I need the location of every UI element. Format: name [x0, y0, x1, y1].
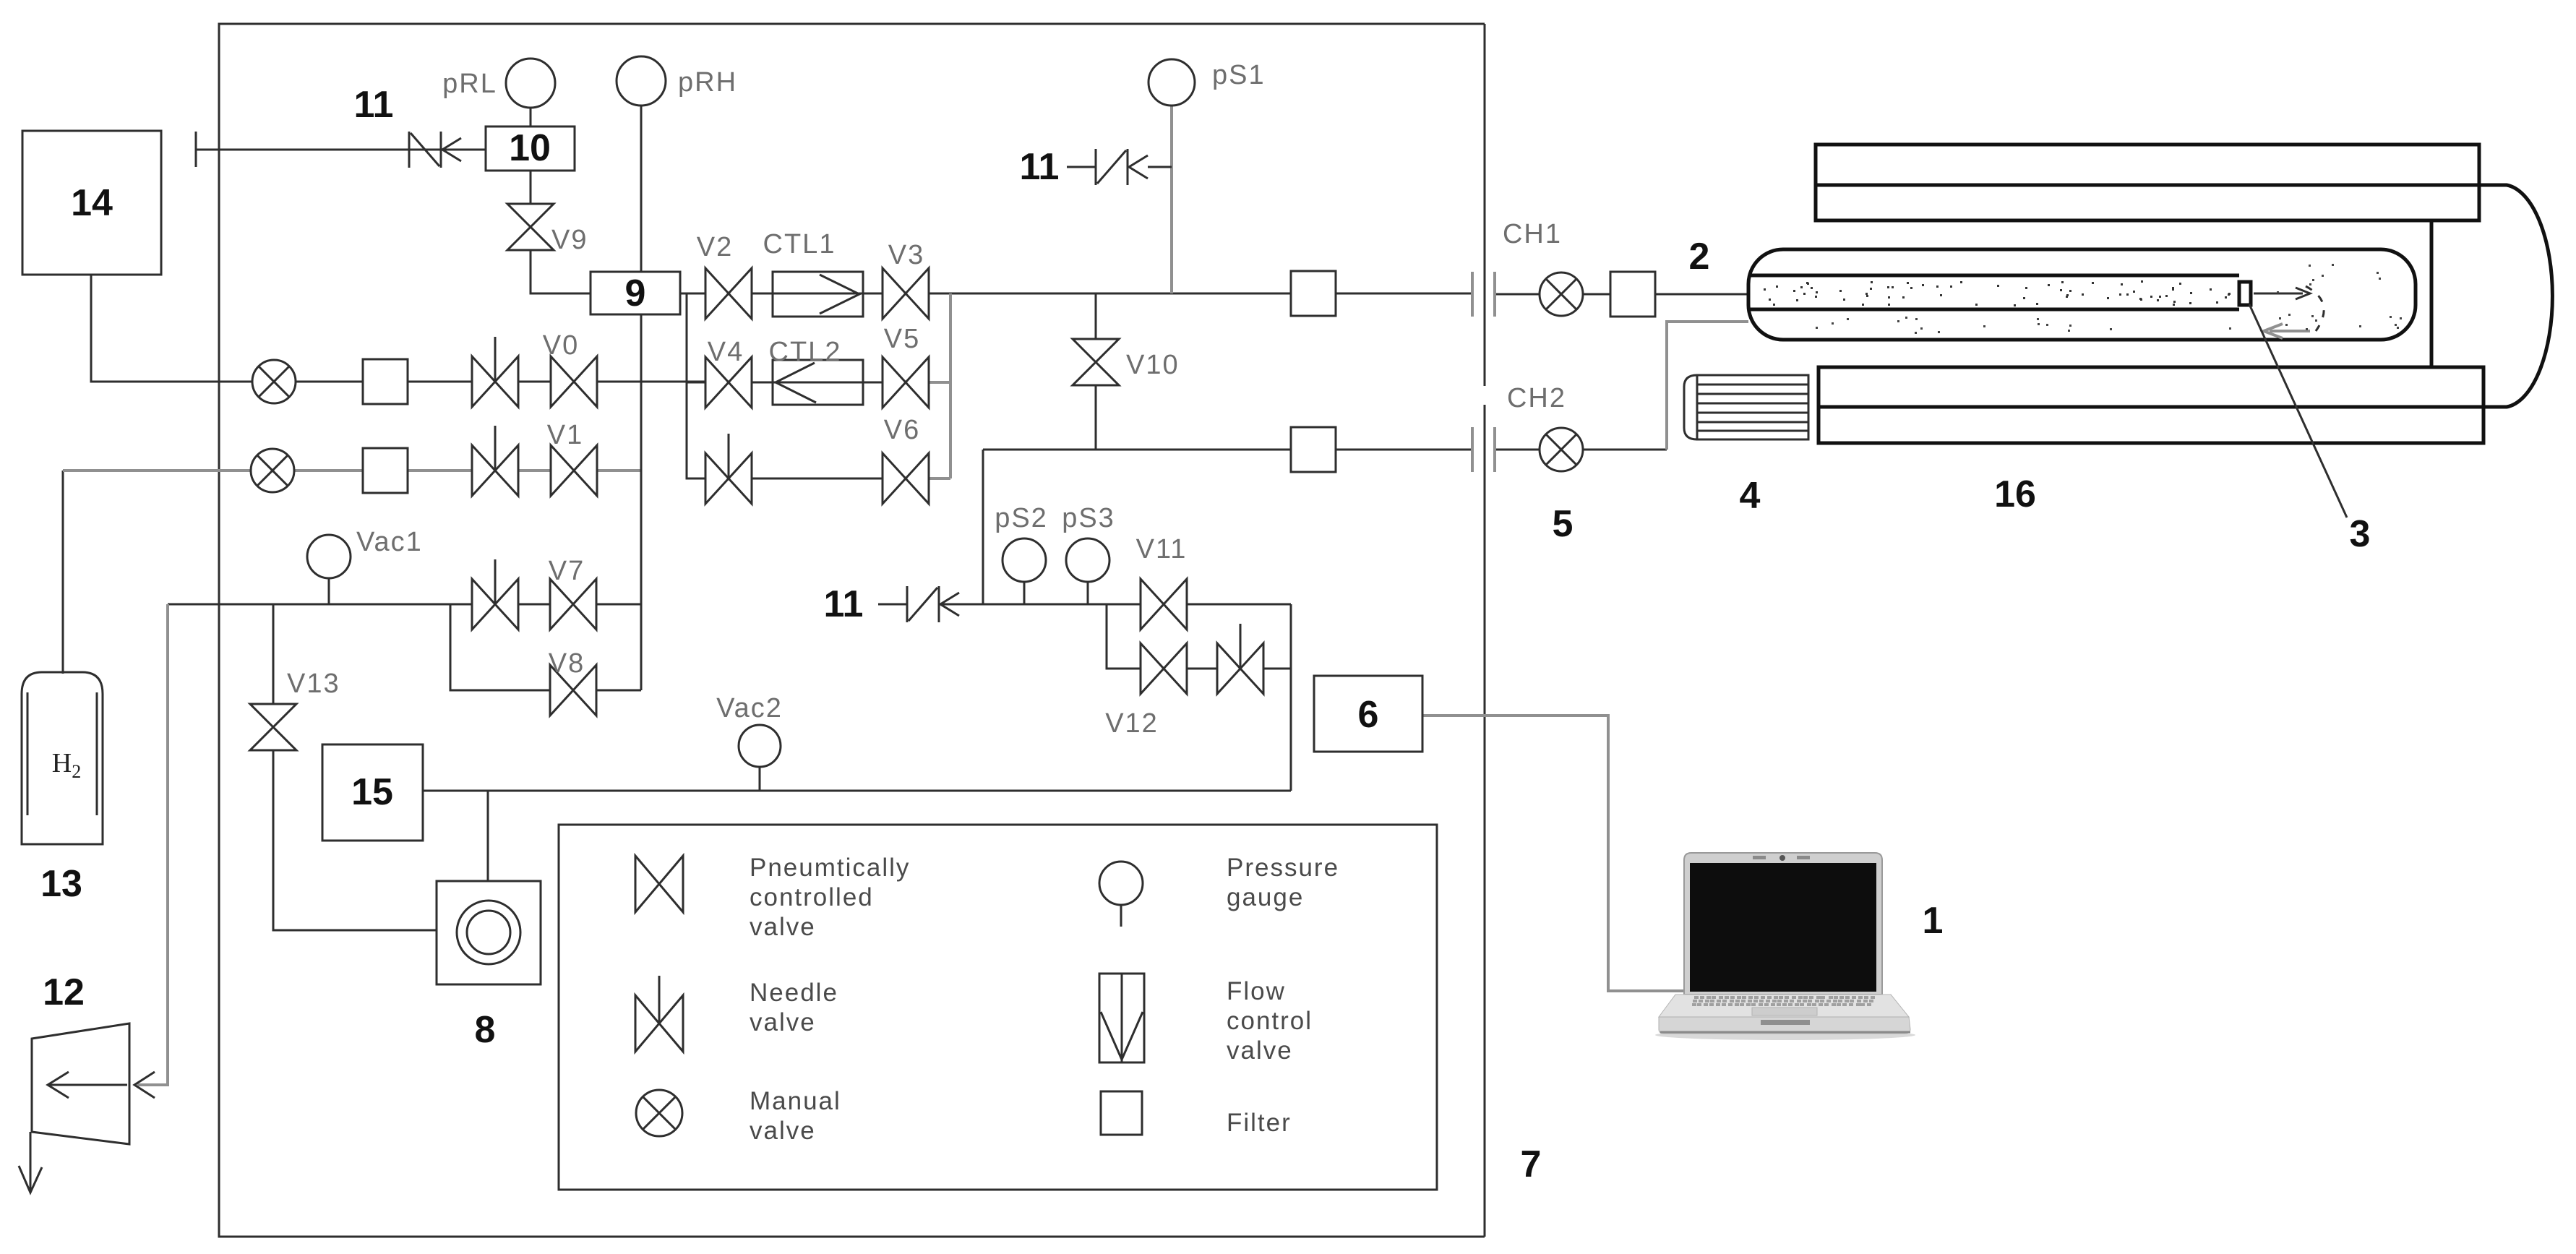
svg-text:valve: valve — [750, 1008, 816, 1036]
wire: pRH stem into box 9 — [640, 103, 643, 272]
pressure gauge pS2 — [995, 503, 1048, 604]
filter (CH1 line) — [1291, 271, 1336, 316]
svg-text:pRH: pRH — [678, 67, 737, 98]
furnace top block 16 — [1816, 145, 2479, 220]
label 4 — [1740, 475, 1761, 517]
svg-text:CTL2: CTL2 — [769, 337, 842, 367]
label 12 — [43, 971, 85, 1013]
wire: box 10 to V9 to box 9 — [531, 171, 591, 293]
dashed flow curve — [2306, 286, 2324, 331]
svg-text:12: 12 — [43, 971, 85, 1013]
svg-text:2: 2 — [1689, 236, 1710, 278]
regulator box 10 — [486, 126, 575, 171]
svg-text:Vac2: Vac2 — [716, 693, 783, 723]
manual valve (CH2) — [1540, 428, 1583, 471]
svg-text:6: 6 — [1358, 694, 1379, 736]
vacuum pump box 8 — [437, 881, 541, 984]
svg-text:V3: V3 — [888, 240, 924, 270]
valve V6 — [883, 415, 929, 504]
pointer line to 3 — [2249, 304, 2370, 555]
wire: V1 row tail (grey) — [597, 469, 641, 472]
svg-text:V12: V12 — [1105, 708, 1159, 739]
label 16 — [1994, 473, 2036, 515]
needle valve (V1 row) — [472, 426, 518, 496]
valve V12 — [1105, 643, 1187, 739]
svg-text:controlled: controlled — [750, 883, 874, 911]
interface box 6 — [1314, 676, 1422, 752]
valve V3 — [883, 240, 929, 319]
wire: V3/V5/V6 collector (grey) — [929, 293, 950, 478]
controller box 15 — [322, 744, 423, 841]
flow arrow right — [2254, 288, 2310, 299]
wire: relief line from end cap to box 10 — [196, 132, 486, 167]
svg-text:Filter: Filter — [1227, 1109, 1292, 1137]
svg-text:pS3: pS3 — [1062, 503, 1115, 533]
mixing box 9 — [591, 272, 680, 314]
svg-text:V0: V0 — [543, 330, 579, 361]
legend pressure gauge — [1099, 854, 1339, 927]
needle valve (V6 row) — [705, 434, 752, 504]
label 13 — [40, 863, 82, 905]
wire: V4 branch lead — [687, 382, 929, 384]
legend pneumatically controlled valve — [635, 854, 910, 941]
wire: box 9 down-manifold crossing V0 V1 rows to V8 row — [640, 314, 643, 690]
svg-text:V4: V4 — [708, 337, 744, 367]
filter (CH2 line) — [1291, 427, 1336, 472]
svg-text:V11: V11 — [1136, 534, 1188, 564]
wire: V10 branch CH1 to CH2 — [1095, 293, 1097, 450]
svg-text:V5: V5 — [884, 324, 920, 354]
flow control valve CTL1 — [763, 229, 863, 317]
manual valve (V0 row) — [252, 360, 296, 403]
wire: CH1 tail into manual valve and furnace — [1495, 293, 1748, 296]
relief valve 11 (vacuum manifold) — [824, 583, 959, 625]
heater 4 — [1684, 375, 1808, 439]
svg-text:V6: V6 — [884, 415, 920, 445]
filter (V0 row) — [363, 359, 408, 404]
svg-text:10: 10 — [509, 127, 551, 169]
svg-text:gauge: gauge — [1227, 883, 1304, 911]
svg-text:14: 14 — [71, 182, 113, 224]
manual valve (CH1) — [1540, 272, 1583, 316]
sample holder 3 — [2239, 282, 2251, 305]
label 8 — [475, 1009, 496, 1051]
wire: box 6 to laptop — [1422, 716, 1687, 991]
legend needle valve — [635, 976, 838, 1052]
legend filter — [1101, 1091, 1292, 1137]
wire: CH1 main line V3 to frame — [929, 293, 1472, 295]
system enclosure box 7 — [219, 24, 1485, 1237]
svg-text:V8: V8 — [549, 648, 585, 679]
quartz tube 2 — [1748, 249, 2416, 340]
svg-text:CH1: CH1 — [1503, 219, 1562, 249]
svg-text:11: 11 — [354, 84, 394, 126]
wire: box 14 to V0 row — [91, 275, 551, 382]
svg-text:Flow: Flow — [1227, 977, 1286, 1005]
relief valve 11 (pS1 branch) — [1020, 146, 1172, 188]
svg-text:9: 9 — [625, 272, 646, 314]
vacuum pump 12 trapezoid — [19, 1023, 129, 1193]
pressure gauge pRH — [617, 56, 737, 106]
svg-text:pRL: pRL — [442, 69, 497, 99]
svg-text:V9: V9 — [551, 225, 588, 255]
svg-text:V7: V7 — [549, 556, 585, 586]
furnace end connector arc — [2431, 185, 2552, 407]
svg-text:1: 1 — [1923, 900, 1944, 942]
needle valve (V12 row) — [1217, 624, 1263, 694]
svg-text:valve: valve — [750, 913, 816, 941]
svg-text:3: 3 — [2350, 513, 2371, 555]
valve V10 — [1073, 339, 1180, 385]
wire: V13 branch down to pump box 8 — [273, 604, 437, 930]
wire: pS2/pS3 manifold — [940, 583, 1291, 604]
svg-text:V1: V1 — [547, 420, 583, 450]
filter (CH1 outlet) — [1610, 272, 1655, 317]
valve V2 — [697, 232, 752, 319]
svg-text:V10: V10 — [1126, 350, 1180, 380]
svg-text:Needle: Needle — [750, 979, 838, 1007]
svg-text:control: control — [1227, 1007, 1313, 1035]
valve V8 — [549, 648, 596, 716]
valve V5 — [883, 324, 929, 408]
valve V0 — [543, 330, 597, 407]
pressure gauge pS3 — [1062, 503, 1115, 604]
label 7 — [1521, 1143, 1542, 1185]
wire: vacuum line box15 to V12 manifold — [423, 768, 1291, 791]
wire: CH2 tail and riser to furnace annulus (grey) — [1495, 322, 1748, 450]
filter (V1 row) — [363, 448, 408, 493]
coupling CH2 — [1472, 383, 1566, 472]
label 1 — [1923, 900, 1944, 942]
flow control valve CTL2 — [769, 337, 863, 405]
valve V7 — [549, 556, 596, 630]
vacuum gauge Vac1 — [307, 527, 423, 604]
svg-text:4: 4 — [1740, 475, 1761, 517]
label 5 — [1553, 503, 1573, 545]
wire: box 9 out to V2/V4/V6 manifold — [680, 293, 929, 478]
inner sample tube — [1750, 275, 2239, 309]
wire: CH2 drop to pS2 manifold — [982, 450, 984, 604]
legend box — [559, 825, 1437, 1190]
wire: drop to pump box 8 — [487, 791, 489, 881]
relief valve 11 (top left) — [354, 84, 461, 168]
H2 cylinder 13 — [22, 672, 103, 844]
svg-text:valve: valve — [1227, 1036, 1293, 1065]
wire: vacuum pump line (grey) — [137, 604, 168, 1085]
pressure gauge pRL — [442, 59, 555, 126]
return flow arrow (grey) — [2264, 324, 2310, 338]
svg-text:V13: V13 — [287, 669, 340, 699]
svg-text:Manual: Manual — [750, 1087, 841, 1115]
legend manual valve — [636, 1087, 841, 1145]
svg-text:16: 16 — [1994, 473, 2036, 515]
wire: V12 bypass loop — [1107, 604, 1291, 791]
svg-text:valve: valve — [750, 1117, 816, 1145]
svg-text:Pressure: Pressure — [1227, 854, 1339, 882]
svg-text:5: 5 — [1553, 503, 1573, 545]
valve V9 — [507, 204, 588, 255]
wire: CH2 line — [983, 449, 1472, 451]
svg-text:11: 11 — [824, 583, 864, 625]
legend flow control valve — [1099, 974, 1313, 1065]
svg-text:7: 7 — [1521, 1143, 1542, 1185]
wire: Vac1/V7 manifold — [168, 578, 641, 604]
valve V4 — [705, 337, 752, 408]
valve V13 — [250, 669, 340, 750]
svg-text:CH2: CH2 — [1507, 383, 1566, 413]
svg-text:13: 13 — [40, 863, 82, 905]
svg-text:V2: V2 — [697, 232, 733, 262]
furnace bottom block — [1819, 367, 2483, 443]
svg-text:8: 8 — [475, 1009, 496, 1051]
box 14 gas supply — [22, 131, 161, 275]
coupling CH1 — [1472, 219, 1562, 317]
wire: pS1 stem (grey) — [1170, 106, 1173, 293]
wire: V0 row to V4 branch — [597, 381, 705, 383]
manual valve (V1 row) — [251, 449, 294, 492]
svg-text:pS2: pS2 — [995, 503, 1048, 533]
laptop 1 — [1655, 853, 1915, 1040]
needle valve (V0 row) — [472, 337, 518, 407]
valve V11 — [1136, 534, 1188, 630]
svg-text:11: 11 — [1020, 146, 1060, 188]
svg-text:CTL1: CTL1 — [763, 229, 836, 259]
needle valve (V7 row) — [472, 559, 518, 630]
svg-text:Pneumtically: Pneumtically — [750, 854, 910, 882]
wire: pRL stem — [530, 106, 532, 126]
wire: H2 cylinder riser to V1 row (grey) — [63, 471, 551, 674]
vacuum gauge Vac2 — [716, 693, 783, 791]
arrowhead into pump 12 — [134, 1072, 155, 1098]
label 2 — [1689, 236, 1710, 278]
sample powder speckle — [1764, 264, 2402, 334]
wire: V8 bypass — [450, 604, 641, 690]
svg-text:pS1: pS1 — [1212, 60, 1266, 90]
pressure gauge pS1 — [1149, 59, 1266, 106]
valve V1 — [547, 420, 597, 496]
svg-text:Vac1: Vac1 — [356, 527, 423, 557]
svg-text:15: 15 — [351, 771, 393, 813]
